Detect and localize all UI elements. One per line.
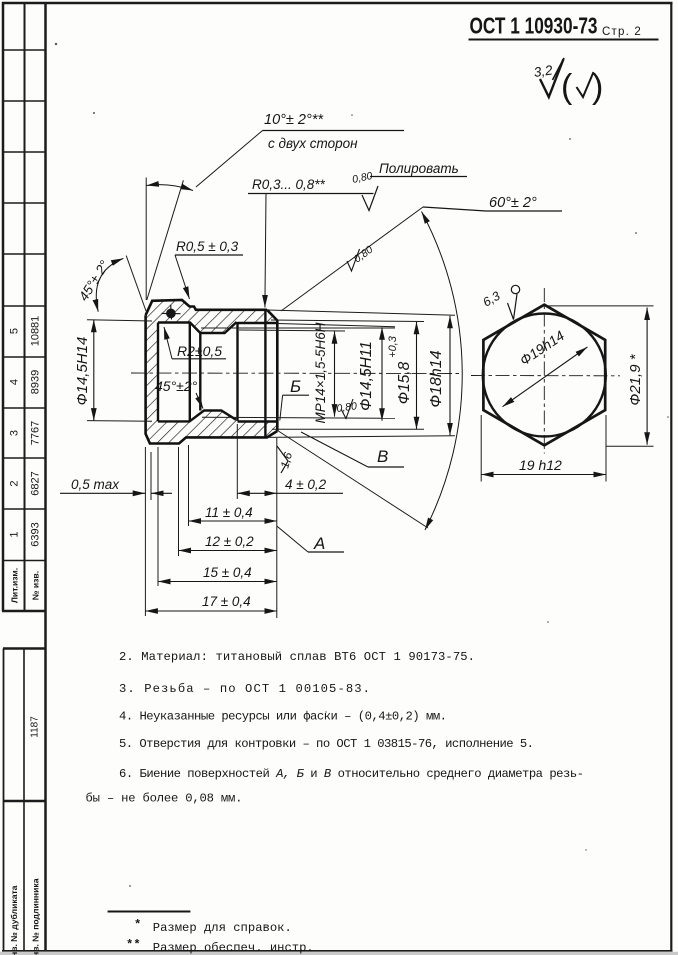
hatched section areas (146, 300, 278, 444)
svg-text:10881: 10881 (30, 316, 42, 347)
svg-text:2. Материал: титановый сплав В: 2. Материал: титановый сплав ВТ6 ОСТ 1 9… (119, 650, 475, 664)
sidebar lower table (3, 649, 46, 952)
svg-text:4. Неуказанные ресурсы или фас: 4. Неуказанные ресурсы или фаски – (0,4±… (119, 710, 447, 724)
svg-text:Размер для справок.: Размер для справок. (153, 921, 292, 935)
svg-text:10°± 2°**: 10°± 2°** (264, 112, 324, 128)
svg-text:6827: 6827 (30, 471, 42, 495)
sidebar revision table rows (2, 50, 46, 611)
svg-text:11 ± 0,4: 11 ± 0,4 (205, 505, 253, 520)
centerline (131, 372, 460, 375)
svg-text:R0,3... 0,8**: R0,3... 0,8** (252, 177, 326, 192)
svg-text:Полировать: Полировать (379, 161, 459, 176)
21,9 dim right (548, 306, 654, 446)
bottom scan strip (0, 952, 678, 955)
svg-text:*: * (134, 918, 141, 932)
svg-text:3: 3 (9, 430, 21, 436)
svg-text:6. Биение поверхностей А, Б и: 6. Биение поверхностей А, Б и В относите… (119, 767, 584, 781)
svg-text:с двух сторон: с двух сторон (268, 136, 358, 151)
sidebar column divider (24, 3, 26, 611)
svg-text:+0,3: +0,3 (387, 335, 399, 358)
frame bottom (2, 950, 673, 952)
svg-text:Ф14,5Н11: Ф14,5Н11 (358, 341, 375, 411)
svg-text:R2±0,5: R2±0,5 (177, 343, 222, 359)
svg-text:Размер обеспеч. инстр.: Размер обеспеч. инстр. (153, 941, 314, 955)
svg-text:3. Резьба – по ОСТ 1 00105-83.: 3. Резьба – по ОСТ 1 00105-83. (119, 682, 370, 696)
right-side extension lines (239, 310, 455, 437)
frame left (sidebar right edge) (44, 2, 47, 952)
frame top (2, 2, 673, 4)
svg-text:**: ** (126, 938, 141, 952)
svg-text:Стр. 2: Стр. 2 (602, 26, 642, 38)
svg-text:19 h12: 19 h12 (519, 457, 562, 473)
svg-text:бы – не более 0,08 мм.: бы – не более 0,08 мм. (86, 792, 243, 806)
svg-text:12 ± 0,2: 12 ± 0,2 (205, 534, 254, 549)
title OST 1 10930-73 (469, 13, 659, 40)
frame right (670, 2, 672, 952)
svg-text:А: А (313, 534, 325, 553)
svg-text:60°± 2°: 60°± 2° (489, 195, 537, 211)
svg-text:Ф15,8: Ф15,8 (396, 361, 413, 404)
svg-text:МР14×1,5-5Н6Н: МР14×1,5-5Н6Н (313, 322, 328, 423)
svg-text:ОСТ 1 10930-73: ОСТ 1 10930-73 (470, 13, 598, 39)
inner cavity profile (158, 310, 277, 438)
svg-text:нв. № дубликата: нв. № дубликата (9, 885, 19, 955)
surface finish symbol top right: 3,2 check (check) (540, 58, 594, 97)
1,6 roughness at right face (277, 446, 288, 473)
outer profile (146, 300, 278, 444)
svg-text:Ф21,9 *: Ф21,9 * (627, 353, 644, 405)
svg-text:Ф18h14: Ф18h14 (428, 350, 445, 407)
svg-text:Б: Б (290, 377, 301, 396)
svg-text:0,5 max: 0,5 max (71, 477, 120, 492)
sidebar header + numbers (rotated) (9, 316, 42, 603)
svg-text:2: 2 (9, 480, 21, 486)
svg-text:5: 5 (9, 328, 21, 334)
svg-text:R0,5 ± 0,3: R0,5 ± 0,3 (176, 239, 239, 254)
thread thin lines (201, 328, 395, 418)
svg-text:): ) (592, 68, 603, 106)
10 deg taper dim (145, 178, 147, 301)
svg-text:(: ( (561, 68, 573, 106)
svg-text:4 ± 0,2: 4 ± 0,2 (285, 477, 327, 492)
svg-text:5. Отверстия для контровки – п: 5. Отверстия для контровки – по ОСТ 1 03… (119, 737, 534, 751)
lock-wire hole on head (162, 305, 181, 320)
page left edge (2, 2, 5, 611)
svg-text:6393: 6393 (30, 522, 42, 546)
svg-text:№ изв.: № изв. (31, 571, 41, 600)
svg-text:7767: 7767 (30, 421, 42, 445)
svg-text:1: 1 (9, 531, 21, 537)
svg-text:8939: 8939 (30, 370, 42, 394)
svg-text:15 ± 0,4: 15 ± 0,4 (203, 565, 252, 580)
19h12 dim bottom (481, 415, 606, 482)
svg-text:17 ± 0,4: 17 ± 0,4 (202, 594, 251, 609)
svg-text:нв. № подлинника: нв. № подлинника (31, 878, 41, 955)
svg-text:1187: 1187 (30, 716, 41, 738)
svg-text:В: В (377, 447, 388, 466)
right diameter dimension lines (335, 316, 451, 436)
svg-text:Ф14,5Н14: Ф14,5Н14 (74, 337, 91, 406)
diagonal diameter dim (503, 347, 588, 407)
svg-text:4: 4 (9, 379, 21, 385)
svg-text:3,2: 3,2 (533, 62, 554, 80)
svg-text:Лит.изм.: Лит.изм. (10, 568, 20, 603)
svg-text:45°±2°: 45°±2° (155, 378, 198, 394)
